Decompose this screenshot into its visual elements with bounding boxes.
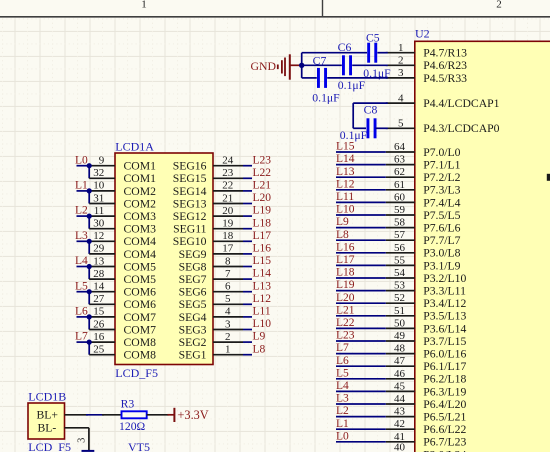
U2 pin 47 xyxy=(386,355,415,367)
wire net L18 xyxy=(243,228,252,230)
svg-text:L19: L19 xyxy=(336,279,355,291)
svg-text:P3.4/L12: P3.4/L12 xyxy=(423,297,466,310)
net label L14 xyxy=(253,268,272,280)
svg-text:P3.0/L8: P3.0/L8 xyxy=(423,247,460,260)
wire net L22 to U2 pin 50 xyxy=(336,327,386,329)
LCD1A pin 13 xyxy=(87,255,115,267)
svg-text:COM2: COM2 xyxy=(124,197,157,210)
svg-text:21: 21 xyxy=(222,192,233,204)
net label L7 xyxy=(75,331,88,343)
svg-text:U2: U2 xyxy=(415,27,430,41)
svg-text:22: 22 xyxy=(222,180,233,192)
svg-text:1: 1 xyxy=(141,0,147,10)
wire net L0 to U2 pin 41 xyxy=(336,441,386,443)
svg-text:43: 43 xyxy=(394,406,406,418)
wire net L7 to U2 pin 48 xyxy=(336,353,386,355)
capacitor C5 0.1uF xyxy=(363,31,391,80)
wire net L8 to U2 pin 57 xyxy=(336,239,386,241)
U2 pin 49 xyxy=(386,330,415,342)
wire net L13 xyxy=(243,291,252,293)
net label L13 xyxy=(336,166,355,178)
svg-text:L3: L3 xyxy=(75,230,88,242)
wire net L19 xyxy=(243,215,252,217)
svg-text:2: 2 xyxy=(225,331,231,343)
svg-text:28: 28 xyxy=(93,268,105,280)
wire GND bus to C6 (pin 2 row) xyxy=(302,64,388,66)
U2 pin 41 xyxy=(386,431,415,443)
LCD1A pin 10 xyxy=(87,180,115,192)
svg-text:L18: L18 xyxy=(253,217,272,229)
junction net L4 xyxy=(87,264,92,269)
svg-text:SEG13: SEG13 xyxy=(173,197,207,210)
LCD backlight LCD1B body xyxy=(28,389,71,452)
wire net L11 to U2 pin 60 xyxy=(336,201,386,203)
LCD1A pin 18 xyxy=(213,230,243,242)
wire net L13 to U2 pin 62 xyxy=(336,176,386,178)
wire net L22 xyxy=(243,177,252,179)
net label L14 xyxy=(336,153,355,165)
svg-text:SEG3: SEG3 xyxy=(179,323,207,336)
wire net L10 to U2 pin 59 xyxy=(336,214,386,216)
svg-text:P7.5/L5: P7.5/L5 xyxy=(423,209,460,222)
net label L15 xyxy=(336,141,355,153)
svg-text:COM3: COM3 xyxy=(124,210,157,223)
svg-text:P7.6/L6: P7.6/L6 xyxy=(423,222,460,235)
svg-text:3: 3 xyxy=(76,438,87,443)
wire net L8 xyxy=(243,354,252,356)
net label L8 xyxy=(253,343,266,355)
svg-text:P6.5/L21: P6.5/L21 xyxy=(423,411,466,424)
svg-text:COM8: COM8 xyxy=(124,349,157,362)
svg-text:L8: L8 xyxy=(336,229,349,241)
svg-text:61: 61 xyxy=(394,179,405,191)
svg-text:COM8: COM8 xyxy=(124,336,157,349)
U2 pin 56 xyxy=(386,242,415,254)
wire net L4 xyxy=(77,267,90,280)
wire net L5 xyxy=(77,292,90,305)
svg-text:48: 48 xyxy=(394,343,406,355)
svg-text:L16: L16 xyxy=(336,241,355,253)
wire net L19 to U2 pin 53 xyxy=(336,290,386,292)
U2 pin 46 xyxy=(386,368,415,380)
LCD1B pin BL- xyxy=(38,422,89,435)
wire net L14 xyxy=(243,278,252,280)
net label L19 xyxy=(336,279,355,291)
svg-text:COM4: COM4 xyxy=(124,235,157,248)
svg-text:L12: L12 xyxy=(253,293,272,305)
wire VT5 collector top xyxy=(82,450,95,452)
svg-text:4: 4 xyxy=(398,92,404,104)
net label L5 xyxy=(336,367,349,379)
svg-text:L7: L7 xyxy=(75,331,88,343)
svg-text:31: 31 xyxy=(93,192,104,204)
svg-text:L10: L10 xyxy=(336,204,355,216)
svg-text:47: 47 xyxy=(394,355,406,367)
svg-text:L22: L22 xyxy=(336,317,355,329)
U2 pin 60 xyxy=(386,191,415,203)
svg-text:COM6: COM6 xyxy=(124,298,157,311)
svg-text:P4.3/LCDCAP0: P4.3/LCDCAP0 xyxy=(423,122,499,135)
svg-text:29: 29 xyxy=(93,243,105,255)
wire GND bus to C7 (pin 3 row) xyxy=(302,77,388,79)
svg-text:8: 8 xyxy=(225,255,231,267)
U2 pin 59 xyxy=(386,204,415,216)
svg-text:L14: L14 xyxy=(336,153,355,165)
svg-text:L4: L4 xyxy=(75,255,88,267)
net label L16 xyxy=(336,241,355,253)
svg-text:53: 53 xyxy=(394,280,406,292)
LCD1A pin 24 xyxy=(213,155,243,167)
svg-text:L0: L0 xyxy=(75,154,88,166)
svg-text:57: 57 xyxy=(394,229,406,241)
wire net L21 to U2 pin 51 xyxy=(336,315,386,317)
svg-text:SEG10: SEG10 xyxy=(173,235,207,248)
svg-text:SEG1: SEG1 xyxy=(179,349,207,362)
U2 pin 53 xyxy=(386,280,415,292)
svg-text:44: 44 xyxy=(394,393,406,405)
svg-text:26: 26 xyxy=(93,318,105,330)
svg-text:P6.3/L19: P6.3/L19 xyxy=(423,385,466,398)
svg-text:L7: L7 xyxy=(336,342,349,354)
wire net L5 to U2 pin 46 xyxy=(336,378,386,380)
svg-text:P3.2/L10: P3.2/L10 xyxy=(423,272,466,285)
capacitor C8 0.1uF xyxy=(340,103,378,142)
power port +3.3V xyxy=(168,408,209,422)
LCD1A pin 12 xyxy=(87,230,115,242)
wire net L16 to U2 pin 56 xyxy=(336,252,386,254)
LCD1A pin 19 xyxy=(213,218,243,230)
svg-text:10: 10 xyxy=(93,180,105,192)
LCD1A pin 4 xyxy=(213,306,243,318)
wire net L20 xyxy=(243,203,252,205)
LCD1A pin 3 xyxy=(213,318,243,330)
wire net L12 xyxy=(243,303,252,305)
svg-text:63: 63 xyxy=(394,154,406,166)
capacitor C6 0.1uF xyxy=(338,41,366,92)
LCD1A pin 31 xyxy=(89,192,115,204)
svg-text:R3: R3 xyxy=(121,398,135,411)
svg-text:COM4: COM4 xyxy=(124,248,157,261)
svg-text:L20: L20 xyxy=(253,192,272,204)
U2 pin 3 xyxy=(386,67,415,79)
U2 pin names xyxy=(423,47,499,452)
svg-text:L12: L12 xyxy=(336,178,355,190)
svg-text:L1: L1 xyxy=(75,180,88,192)
op-amp/IC U2 microcontroller body xyxy=(415,27,550,452)
svg-text:62: 62 xyxy=(394,166,405,178)
wire net L23 to U2 pin 49 xyxy=(336,340,386,342)
svg-text:2: 2 xyxy=(496,0,502,10)
junction net L3 xyxy=(87,239,92,244)
svg-text:L21: L21 xyxy=(336,304,355,316)
wire C8 to U2 pin5 xyxy=(375,127,387,129)
net label L6 xyxy=(75,306,88,318)
svg-text:19: 19 xyxy=(222,218,234,230)
svg-text:54: 54 xyxy=(394,267,406,279)
U2 pin 4 xyxy=(386,92,415,104)
svg-text:L14: L14 xyxy=(253,268,272,280)
wire net L4 to U2 pin 45 xyxy=(336,390,386,392)
LCD1A pin 17 xyxy=(213,243,243,255)
svg-text:L13: L13 xyxy=(336,166,355,178)
wire U2 pin4 to C8 xyxy=(353,103,388,128)
svg-text:P2.0/L24: P2.0/L24 xyxy=(423,448,466,452)
svg-text:L3: L3 xyxy=(336,393,349,405)
LCD1A pin 29 xyxy=(89,243,115,255)
svg-text:50: 50 xyxy=(394,317,406,329)
net label L10 xyxy=(336,204,355,216)
LCD1A pin 16 xyxy=(87,331,115,343)
LCD1A pin 11 xyxy=(87,205,115,217)
svg-text:L11: L11 xyxy=(336,191,354,203)
wire net L12 to U2 pin 61 xyxy=(336,189,386,191)
svg-text:P6.1/L17: P6.1/L17 xyxy=(423,360,466,373)
net label L20 xyxy=(253,192,272,204)
U2 pin 44 xyxy=(386,393,415,405)
svg-text:GND: GND xyxy=(251,59,277,73)
net label L10 xyxy=(253,318,272,330)
svg-text:46: 46 xyxy=(394,368,406,380)
svg-text:COM2: COM2 xyxy=(124,185,157,198)
svg-text:P6.0/L16: P6.0/L16 xyxy=(423,348,466,361)
net label L11 xyxy=(253,306,271,318)
svg-text:P3.1/L9: P3.1/L9 xyxy=(423,259,460,272)
net label L3 xyxy=(336,393,349,405)
U2 pin 54 xyxy=(386,267,415,279)
svg-text:+3.3V: +3.3V xyxy=(178,408,209,422)
svg-text:LCD_F5: LCD_F5 xyxy=(115,366,158,380)
wire net L15 to U2 pin 64 xyxy=(336,151,386,153)
LCD1A pin 2 xyxy=(213,331,243,343)
svg-text:32: 32 xyxy=(93,167,104,179)
U2 pin 52 xyxy=(386,292,415,304)
svg-text:0.1μF: 0.1μF xyxy=(340,129,368,142)
LCD1A pin 1 xyxy=(213,344,243,356)
svg-text:COM1: COM1 xyxy=(124,160,157,173)
net label L22 xyxy=(253,167,272,179)
svg-text:L19: L19 xyxy=(253,205,272,217)
svg-text:L6: L6 xyxy=(75,306,88,318)
transistor VT5 designator xyxy=(128,440,150,452)
U2 pin 48 xyxy=(386,343,415,355)
svg-text:56: 56 xyxy=(394,242,406,254)
svg-text:13: 13 xyxy=(93,255,105,267)
net label L12 xyxy=(253,293,272,305)
net label L19 xyxy=(253,205,272,217)
net label L22 xyxy=(336,317,355,329)
wire net L11 xyxy=(243,316,252,318)
LCD1A pin 5 xyxy=(213,293,243,305)
svg-text:P4.4/LCDCAP1: P4.4/LCDCAP1 xyxy=(423,97,499,110)
svg-text:SEG12: SEG12 xyxy=(173,210,207,223)
svg-text:49: 49 xyxy=(394,330,406,342)
svg-text:120Ω: 120Ω xyxy=(119,420,146,433)
svg-text:64: 64 xyxy=(394,141,406,153)
net label L4 xyxy=(75,255,88,267)
net label L4 xyxy=(336,380,349,392)
svg-text:L11: L11 xyxy=(253,306,271,318)
U2 pin 50 xyxy=(386,317,415,329)
svg-text:P7.0/L0: P7.0/L0 xyxy=(423,146,460,159)
svg-text:C6: C6 xyxy=(338,41,352,54)
junction net L2 xyxy=(87,214,92,219)
svg-text:L8: L8 xyxy=(253,343,266,355)
svg-text:L4: L4 xyxy=(336,380,349,392)
LCD1A pin 27 xyxy=(89,293,115,305)
svg-text:COM3: COM3 xyxy=(124,223,157,236)
svg-text:52: 52 xyxy=(394,292,405,304)
svg-text:C8: C8 xyxy=(364,103,378,116)
svg-text:P6.6/L22: P6.6/L22 xyxy=(423,423,466,436)
svg-text:51: 51 xyxy=(394,305,405,317)
wire net L16 xyxy=(243,253,252,255)
net label L15 xyxy=(253,255,272,267)
net label L1 xyxy=(336,418,349,430)
net label L20 xyxy=(336,292,355,304)
net label L21 xyxy=(253,180,272,192)
resistor R3 120ohm xyxy=(102,398,169,434)
junction net L5 xyxy=(87,289,92,294)
net label L23 xyxy=(253,154,272,166)
power port GND xyxy=(251,54,301,79)
svg-text:4: 4 xyxy=(225,306,231,318)
svg-text:24: 24 xyxy=(222,155,234,167)
svg-text:L15: L15 xyxy=(253,255,272,267)
svg-text:L16: L16 xyxy=(253,243,272,255)
U2 pin 42 xyxy=(386,418,415,430)
net label L17 xyxy=(253,230,272,242)
U2 pin 40 (number only, line below sheet) xyxy=(394,442,406,452)
svg-text:COM7: COM7 xyxy=(124,311,157,324)
U2 pin 63 xyxy=(386,154,415,166)
svg-text:LCD1B: LCD1B xyxy=(28,389,66,403)
svg-text:60: 60 xyxy=(394,191,406,203)
net label L13 xyxy=(253,280,272,292)
net label L12 xyxy=(336,178,355,190)
net label L2 xyxy=(336,405,349,417)
svg-text:SEG14: SEG14 xyxy=(173,185,207,198)
svg-text:P3.5/L13: P3.5/L13 xyxy=(423,310,466,323)
LCD1A pin 21 xyxy=(213,192,243,204)
svg-text:L21: L21 xyxy=(253,180,272,192)
junction net L0 xyxy=(87,163,92,168)
wire net L2 xyxy=(77,216,90,229)
svg-text:L15: L15 xyxy=(336,141,355,153)
net label L23 xyxy=(336,330,355,342)
U2 pin 5 xyxy=(386,118,415,130)
svg-text:P7.4/L4: P7.4/L4 xyxy=(423,196,460,209)
svg-text:SEG16: SEG16 xyxy=(173,160,207,173)
net label L0 xyxy=(75,154,88,166)
svg-text:P6.4/L20: P6.4/L20 xyxy=(423,398,466,411)
net label L1 xyxy=(75,180,88,192)
svg-text:11: 11 xyxy=(94,205,105,217)
wire net L9 xyxy=(243,341,252,343)
wire net L3 to U2 pin 44 xyxy=(336,403,386,405)
svg-text:55: 55 xyxy=(394,254,406,266)
LCD1A pin 26 xyxy=(89,318,115,330)
svg-text:L20: L20 xyxy=(336,292,355,304)
wire GND bus vertical xyxy=(301,53,303,78)
wire net L21 xyxy=(243,190,252,192)
LCD1A pin 25 xyxy=(89,344,115,356)
U2 pin 43 xyxy=(386,406,415,418)
U2 pin 57 xyxy=(386,229,415,241)
svg-text:42: 42 xyxy=(394,418,405,430)
svg-text:1: 1 xyxy=(225,344,231,356)
svg-text:L9: L9 xyxy=(336,216,349,228)
net label L0 xyxy=(336,430,349,442)
wire BL- down to VT5, pin 3 of VT5 xyxy=(76,428,89,451)
svg-text:LCD_F5: LCD_F5 xyxy=(28,440,71,452)
U2 pin 58 xyxy=(386,217,415,229)
U2 pin 45 xyxy=(386,380,415,392)
junction net L7 xyxy=(87,340,92,345)
svg-text:14: 14 xyxy=(93,281,105,293)
LCD1B pin BL+ xyxy=(37,409,89,422)
net label L21 xyxy=(336,304,355,316)
svg-text:P3.7/L15: P3.7/L15 xyxy=(423,335,466,348)
svg-text:9: 9 xyxy=(99,155,105,167)
svg-text:6: 6 xyxy=(225,281,231,293)
svg-text:5: 5 xyxy=(398,118,404,130)
svg-text:59: 59 xyxy=(394,204,406,216)
net label L18 xyxy=(253,217,272,229)
net label L7 xyxy=(336,342,349,354)
wire net L17 to U2 pin 55 xyxy=(336,264,386,266)
net label L8 xyxy=(336,229,349,241)
wire net L6 to U2 pin 47 xyxy=(336,365,386,367)
net label L17 xyxy=(336,254,355,266)
svg-text:L5: L5 xyxy=(336,367,349,379)
svg-text:L18: L18 xyxy=(336,267,355,279)
svg-text:L2: L2 xyxy=(336,405,349,417)
svg-text:15: 15 xyxy=(93,306,105,318)
svg-text:P7.3/L3: P7.3/L3 xyxy=(423,184,460,197)
svg-text:1: 1 xyxy=(398,42,404,54)
svg-text:40: 40 xyxy=(394,442,406,452)
LCD1A pin 8 xyxy=(213,255,243,267)
LCD1A pin 30 xyxy=(89,218,115,230)
net label L9 xyxy=(336,216,349,228)
LCD1A pin 14 xyxy=(87,281,115,293)
svg-text:30: 30 xyxy=(93,218,105,230)
wire net L20 to U2 pin 52 xyxy=(336,302,386,304)
svg-text:SEG9: SEG9 xyxy=(179,248,207,261)
wire net L9 to U2 pin 58 xyxy=(336,227,386,229)
junction GND bus xyxy=(299,63,304,68)
wire net L17 xyxy=(243,240,252,242)
svg-text:COM5: COM5 xyxy=(124,273,157,286)
svg-text:COM7: COM7 xyxy=(124,323,157,336)
LCD glass LCD1A body xyxy=(115,139,213,379)
svg-text:P4.5/R33: P4.5/R33 xyxy=(423,72,467,85)
U2 pin 62 xyxy=(386,166,415,178)
wire net L0 xyxy=(77,166,90,179)
svg-text:7: 7 xyxy=(225,268,231,280)
svg-text:L22: L22 xyxy=(253,167,272,179)
U2 pin 2 xyxy=(386,55,415,67)
LCD1A pin 28 xyxy=(89,268,115,280)
wire net L18 to U2 pin 54 xyxy=(336,277,386,279)
svg-text:L1: L1 xyxy=(336,418,349,430)
svg-text:SEG4: SEG4 xyxy=(179,311,207,324)
svg-text:23: 23 xyxy=(222,167,234,179)
svg-text:58: 58 xyxy=(394,217,406,229)
svg-text:C7: C7 xyxy=(313,54,327,67)
svg-text:L10: L10 xyxy=(253,318,272,330)
wire net L6 xyxy=(77,317,90,330)
